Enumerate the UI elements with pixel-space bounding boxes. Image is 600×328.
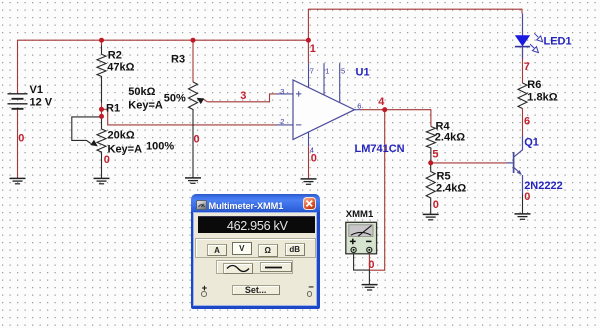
op-amp pin 4 lead: [308, 132, 310, 147]
svg-text:R4: R4: [436, 120, 451, 132]
ground under multimeter: [362, 285, 378, 290]
svg-text:Key=A: Key=A: [108, 143, 143, 155]
wire top rail net 1: [18, 39, 309, 41]
transistor Q1 base bar: [513, 152, 515, 173]
svg-text:50%: 50%: [164, 92, 186, 104]
LED1 cathode lead: [522, 47, 524, 59]
junction node R2 bottom: [99, 107, 104, 112]
svg-text:20kΩ: 20kΩ: [108, 130, 135, 142]
svg-text:R1: R1: [106, 102, 120, 114]
junction node R1 wiper: [99, 114, 104, 119]
svg-text:7: 7: [310, 67, 314, 76]
row2 group: [216, 260, 293, 274]
svg-text:4: 4: [378, 96, 385, 108]
svg-text:50kΩ: 50kΩ: [128, 86, 155, 98]
window title bar: [196, 200, 207, 210]
wire R3 wiper tail: [202, 99, 207, 102]
svg-text:3: 3: [280, 87, 284, 96]
resistor R6 body: [518, 83, 527, 109]
op-amp pin 7 lead: [308, 63, 310, 87]
svg-text:R3: R3: [171, 53, 185, 65]
wire V1 bottom to ground net 0: [17, 109, 19, 179]
svg-text:0: 0: [18, 133, 24, 145]
svg-text:0: 0: [524, 191, 530, 203]
svg-text:6: 6: [357, 102, 361, 111]
minus terminal label: [308, 282, 314, 293]
multimeter window Multimeter-XMM1: [191, 194, 320, 309]
button A: [207, 244, 227, 256]
button V selected: [232, 242, 252, 256]
junction node R2 top: [99, 38, 104, 43]
junction node pin7 rail: [306, 38, 311, 43]
wire inverting input net from R1 node: [102, 109, 277, 125]
svg-text:5: 5: [432, 148, 438, 160]
resistor R5 body: [426, 163, 435, 214]
op-amp pin 2 stub: [276, 124, 293, 126]
wire multimeter plus to ground: [354, 252, 370, 284]
ground under R5: [423, 214, 439, 219]
svg-text:47kΩ: 47kΩ: [107, 62, 134, 74]
button dB: [285, 243, 305, 256]
LED1 anode lead: [522, 13, 524, 35]
svg-text:XMM1: XMM1: [346, 209, 374, 220]
wire base net 5: [431, 162, 507, 164]
wire R2 bottom to node: [101, 103, 103, 116]
transistor Q1 base lead: [507, 162, 514, 164]
svg-text:R2: R2: [108, 49, 122, 61]
svg-text:1.8kΩ: 1.8kΩ: [527, 91, 557, 103]
LED1 emission arrow lower: [530, 44, 534, 48]
junction node net 5: [428, 160, 433, 165]
button group: [195, 238, 316, 258]
ground under V1: [10, 178, 26, 183]
svg-text:0: 0: [194, 134, 200, 146]
svg-text:2.4kΩ: 2.4kΩ: [436, 183, 466, 195]
wire non-inverting input net 3: [207, 94, 276, 102]
svg-text:V1: V1: [30, 84, 43, 96]
svg-text:R5: R5: [437, 170, 451, 182]
ground under R1: [94, 178, 110, 183]
svg-text:Q1: Q1: [524, 136, 539, 148]
junction node R3 top: [191, 38, 196, 43]
svg-text:2: 2: [280, 117, 284, 126]
svg-text:100%: 100%: [146, 140, 174, 152]
Q1 emitter arrow: [517, 170, 522, 175]
wire rail to LED top: [308, 9, 522, 41]
resistor R4 body: [426, 127, 435, 163]
display 462.956 kV: [198, 216, 315, 234]
multimeter XMM1 icon box: [346, 222, 377, 254]
wire op-amp output net 4: [361, 110, 431, 127]
svg-text:0: 0: [433, 199, 439, 211]
wire V1 top lead: [17, 40, 19, 93]
svg-text:7: 7: [524, 61, 530, 73]
sine button: [223, 263, 253, 273]
potentiometer R1 body: [97, 116, 106, 178]
wire R2 top lead: [101, 40, 103, 45]
wire LED to R6: [522, 47, 524, 84]
wire R6 to Q1 collector net 6: [522, 109, 524, 136]
button ohm: [258, 244, 278, 257]
LED1 emission arrow upper: [534, 33, 538, 37]
battery V1 plates: [8, 93, 28, 95]
ground under op-amp pin4: [301, 179, 317, 184]
svg-text:R6: R6: [527, 79, 541, 91]
ground under R3: [185, 178, 201, 183]
svg-text:2.4kΩ: 2.4kΩ: [435, 132, 465, 144]
R1 wiper loop wire: [72, 117, 102, 144]
plus terminal socket: [201, 291, 207, 297]
svg-text:3: 3: [240, 90, 246, 102]
R1 wiper arrow: [90, 140, 98, 147]
op-amp minus sign: [296, 124, 301, 126]
svg-text:12 V: 12 V: [30, 97, 53, 109]
R3 wiper arrow: [197, 98, 205, 104]
svg-text:LED1: LED1: [544, 35, 572, 47]
svg-text:6: 6: [524, 115, 530, 127]
junction node output net 4: [382, 107, 387, 112]
svg-text:5: 5: [341, 67, 345, 76]
LED1 triangle: [516, 36, 530, 46]
svg-text:4: 4: [310, 145, 314, 154]
minus terminal socket: [307, 291, 313, 297]
transistor Q1 collector: [514, 136, 523, 157]
op-amp U1 triangle: [293, 80, 355, 140]
set button: [232, 285, 280, 296]
close button: [303, 197, 316, 210]
wire R3 top lead net 1: [192, 40, 194, 82]
op-amp pin 6 stub: [355, 109, 362, 111]
svg-text:Key=A: Key=A: [128, 99, 163, 111]
svg-text:0: 0: [104, 154, 110, 166]
svg-text:LM741CN: LM741CN: [355, 143, 405, 155]
op-amp pin 3 stub: [277, 93, 294, 95]
transistor Q1 emitter: [514, 168, 523, 195]
svg-text:1: 1: [325, 67, 329, 76]
wire op-amp pin4 to ground: [308, 147, 310, 179]
LED1 cathode bar: [515, 46, 530, 48]
dc button: [260, 262, 292, 272]
svg-text:0: 0: [368, 259, 374, 271]
op-amp pin 1 lead: [323, 63, 325, 95]
wire output to multimeter minus: [369, 110, 384, 271]
wire Q1 emitter to ground: [522, 195, 524, 214]
svg-text:U1: U1: [356, 66, 370, 78]
op-amp plus sign: [296, 91, 301, 96]
wire op-amp pin7 supply: [307, 40, 309, 63]
op-amp pin 5 lead: [339, 63, 341, 102]
resistor R2 47k body: [97, 46, 106, 104]
ground under Q1 emitter: [515, 214, 531, 219]
potentiometer R3 body: [189, 82, 198, 178]
plus terminal label: [202, 283, 208, 294]
svg-text:1: 1: [310, 43, 316, 55]
